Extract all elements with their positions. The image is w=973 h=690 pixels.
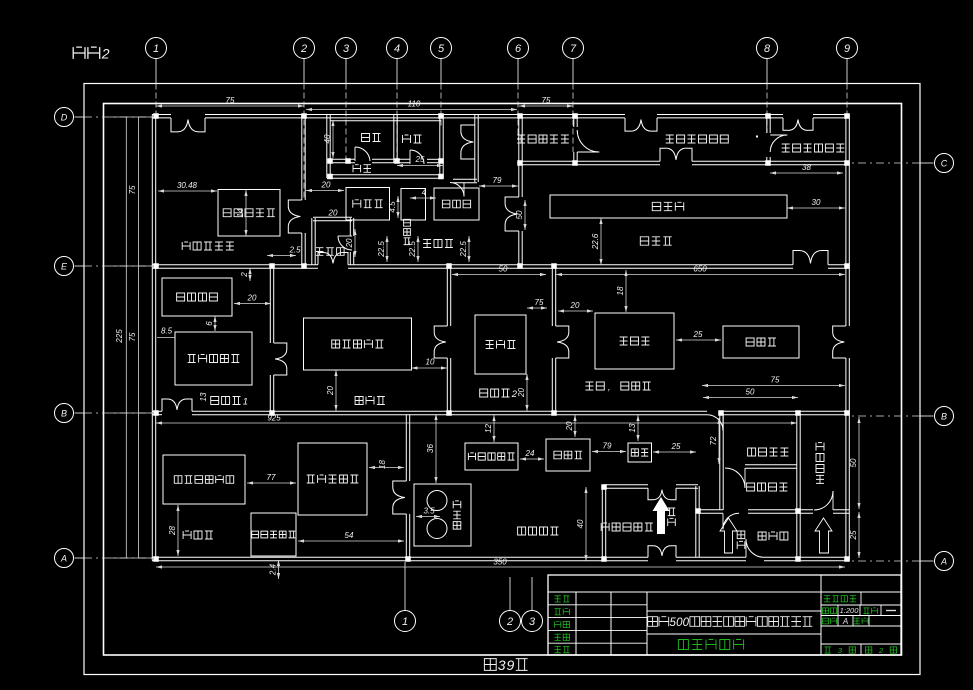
label 贴标机 vertical (404, 219, 411, 226)
svg-text:2: 2 (300, 43, 307, 55)
svg-text:6: 6 (205, 321, 214, 326)
svg-text:1: 1 (402, 616, 408, 628)
grid bubble C right (935, 154, 954, 173)
label 大米暂存区 (601, 523, 609, 531)
top exterior wall row D (152, 114, 171, 116)
vestibule wall x476 (474, 115, 476, 183)
svg-text:,: , (608, 382, 611, 393)
svg-text:18: 18 (378, 460, 387, 469)
svg-text:22.5: 22.5 (377, 241, 386, 258)
svg-text:10: 10 (426, 358, 435, 367)
grid bubble B right (935, 407, 954, 426)
grid bubble 2 top (294, 38, 315, 59)
svg-text:0: 0 (683, 617, 690, 629)
dim 12 vertical (493, 415, 495, 442)
dim 50 (452, 274, 546, 276)
dim 650 (556, 274, 845, 276)
svg-text:E: E (61, 262, 68, 272)
grid bubble 6 top (508, 38, 529, 59)
dim 72 vertical (718, 418, 720, 464)
title block left table (575, 592, 577, 655)
dim 25 vertical (858, 512, 860, 558)
svg-text:650: 650 (693, 265, 707, 274)
door shoe corridor (723, 513, 739, 529)
svg-text:3: 3 (498, 657, 506, 673)
svg-text:12: 12 (484, 424, 493, 433)
grid bubble B left (55, 404, 74, 423)
door row B sterile1 (162, 399, 177, 411)
dim 20 vertical (574, 415, 576, 437)
grid bubble 1 top (146, 38, 167, 59)
svg-text:B: B (941, 412, 947, 422)
dim 20 vertical (335, 370, 337, 411)
dim 40 vertical (332, 120, 334, 158)
svg-text:3.5: 3.5 (423, 507, 435, 516)
door wall sterile1 (274, 343, 287, 359)
machine 检测器 (434, 188, 479, 220)
door inspection (505, 197, 519, 214)
machine 贴标机 box (401, 189, 426, 221)
dim 75 (527, 307, 547, 309)
machine 加压蒸汽灭菌 (163, 455, 245, 504)
label 女厕 (403, 135, 411, 143)
door top wall mid (625, 118, 641, 131)
svg-text:B: B (61, 409, 67, 419)
svg-text:25: 25 (693, 330, 703, 339)
row C interior wall (519, 160, 660, 162)
svg-text:20: 20 (565, 421, 574, 431)
label 外包装材料库 (666, 135, 674, 143)
door row E packing area (793, 250, 811, 264)
grid bubble 5 top (431, 38, 452, 59)
wall between cook and sterile1 (269, 268, 271, 343)
label 无菌区1 (211, 397, 219, 405)
svg-text:77: 77 (267, 473, 276, 482)
label 冷却, 烘干区 (585, 382, 593, 390)
wall between aseptic2 and cooling (551, 268, 553, 326)
dim 25 (676, 339, 721, 341)
svg-text:13: 13 (628, 423, 637, 432)
dim 2.4 vertical (278, 560, 280, 579)
grid bubble 3 top (336, 38, 357, 59)
dim 30.48 (158, 190, 217, 192)
row B interior wall (152, 410, 162, 412)
grid bubble 8 top (757, 38, 778, 59)
label 成品储藏间 (182, 242, 190, 250)
grid bubble D left (55, 108, 74, 127)
outer border frame (84, 84, 920, 675)
svg-text:20: 20 (326, 386, 335, 396)
dim 4 (410, 197, 436, 199)
bottom exterior wall row A (152, 556, 648, 558)
svg-text:9: 9 (506, 657, 514, 673)
grid bubble A right (935, 552, 954, 571)
svg-text:50: 50 (515, 210, 524, 219)
wall between washroom and men changing (745, 464, 797, 466)
door bottom wall shoe (746, 539, 764, 557)
svg-text:72: 72 (709, 436, 718, 445)
small dot (756, 136, 758, 138)
title row 制图 (555, 609, 561, 615)
label 预处理区 (518, 527, 526, 535)
inner border frame (104, 104, 902, 656)
label 人流 (737, 531, 745, 539)
grid bubble 2 bottom (500, 611, 521, 632)
corridor wall above shoe area (698, 509, 723, 511)
dim 75 (702, 385, 845, 387)
svg-text:2: 2 (101, 46, 110, 62)
dim 20 (234, 303, 271, 305)
label 检测区 (423, 240, 431, 248)
svg-text:22.5: 22.5 (408, 241, 417, 258)
svg-text:20: 20 (570, 301, 580, 310)
soaking tank 浸泡槽 (414, 484, 471, 546)
door men toilet leaf (354, 147, 356, 161)
svg-text:22.6: 22.6 (591, 233, 600, 250)
dim 22.5 vertical (417, 236, 419, 262)
svg-text:79: 79 (493, 176, 502, 185)
dim 75 (519, 105, 573, 107)
svg-text:28: 28 (168, 526, 177, 536)
door row C packing store (660, 148, 676, 161)
svg-text:20: 20 (345, 238, 354, 248)
dim 40 vertical (585, 487, 587, 561)
wall grid6 vertical upper (518, 115, 520, 162)
svg-text:38: 38 (802, 163, 811, 172)
arrow 人流 outline 2 (815, 518, 832, 553)
dim 2.5 (267, 255, 296, 257)
dim 20 (558, 310, 593, 312)
svg-text:20: 20 (517, 388, 526, 398)
dim 18 (369, 467, 404, 469)
dim 54 (298, 540, 404, 542)
dim 25 (397, 165, 443, 167)
svg-text:54: 54 (345, 531, 354, 540)
svg-text:50: 50 (499, 265, 508, 274)
dim 925 (156, 422, 797, 424)
svg-text:22.5: 22.5 (459, 241, 468, 258)
dim 3.5 (416, 516, 440, 518)
svg-text:36: 36 (426, 444, 435, 453)
label 灭菌区 (183, 531, 191, 539)
rice store right wall (695, 486, 697, 558)
svg-text:2: 2 (240, 272, 249, 278)
rice store top wall (604, 484, 648, 486)
dim 2 vertical (249, 268, 251, 281)
svg-text:A: A (60, 554, 67, 564)
machine 米仓 (628, 443, 652, 462)
svg-text:110: 110 (408, 100, 421, 109)
door control room leaf (338, 235, 352, 237)
label 男厕 (362, 134, 370, 142)
dim 20 (306, 190, 344, 192)
svg-text:20: 20 (321, 181, 331, 190)
door rice store top (648, 488, 662, 500)
title row 设计 (555, 596, 561, 602)
door row B washroom (707, 415, 723, 431)
svg-text:1: 1 (243, 396, 248, 407)
door right wall cooling (833, 326, 846, 342)
svg-text:24: 24 (525, 449, 535, 458)
dim 30 (787, 207, 845, 209)
dim 38 (770, 172, 843, 174)
title block top strip line (548, 591, 901, 593)
svg-text:C: C (941, 159, 948, 169)
label 隔间 (353, 165, 361, 173)
dim 18 vertical (625, 270, 627, 312)
svg-text:9: 9 (844, 43, 850, 55)
svg-text:A: A (940, 557, 947, 567)
label 炊饭区 (355, 397, 363, 405)
svg-text:30.48: 30.48 (177, 181, 198, 190)
structural columns (153, 113, 159, 119)
machine 冷却架 (595, 313, 674, 369)
grid bubble A left (55, 549, 74, 568)
dim 77 (247, 482, 296, 484)
dim 50 vertical (858, 417, 860, 509)
dim 13 vertical (637, 415, 639, 441)
svg-text:75: 75 (226, 96, 235, 105)
grid bubble 7 top (563, 38, 584, 59)
svg-text:8: 8 (764, 43, 771, 55)
svg-text:50: 50 (746, 388, 755, 397)
machine 连续炊饭机 (304, 318, 412, 370)
label 菜包存放间 (517, 135, 525, 143)
svg-text:30: 30 (812, 198, 821, 207)
svg-text:25: 25 (671, 442, 681, 451)
page label 第39页 (484, 659, 496, 671)
machine 定量洗米机 (175, 332, 252, 385)
dim 20 vertical (526, 374, 528, 411)
title drawing name 车间布置图 (678, 640, 688, 650)
svg-text:3: 3 (343, 43, 350, 55)
svg-text:5: 5 (438, 43, 445, 55)
machine 喷码机 (346, 188, 390, 221)
label 男更衣间 (747, 483, 755, 491)
door wall2 storage (288, 200, 302, 217)
wall between cook and aseptic2 (446, 268, 448, 326)
title block outline (548, 575, 901, 655)
svg-text:75: 75 (542, 96, 551, 105)
dim 50 vertical (524, 200, 526, 230)
grid bubble 4 top (387, 38, 408, 59)
changing room right wall (796, 415, 798, 558)
wall between sterilize area and pretreat (405, 415, 407, 482)
rice store left wall (601, 487, 603, 558)
door grid8 changing (770, 135, 787, 152)
dim 24 (520, 458, 544, 460)
door pretreat wall (393, 481, 407, 498)
svg-text:75: 75 (771, 376, 780, 385)
svg-text:2: 2 (506, 616, 513, 628)
svg-text:18: 18 (616, 286, 625, 295)
dim 22.6 vertical (600, 218, 602, 265)
dim 4.5 vertical (397, 196, 399, 218)
machine 提升机 (546, 439, 590, 471)
toilet block walls (326, 115, 328, 179)
label 包装区 (640, 237, 648, 245)
title right section (820, 575, 822, 655)
grid bubble 1 bottom (395, 611, 416, 632)
svg-text:40: 40 (576, 519, 585, 528)
svg-text:225: 225 (115, 329, 124, 344)
door vestibule stub (450, 183, 464, 197)
svg-text:75: 75 (128, 332, 137, 341)
svg-text:40: 40 (323, 134, 332, 143)
dim 350 (156, 566, 845, 568)
svg-text:4: 4 (422, 188, 427, 197)
svg-text:14: 14 (236, 208, 245, 217)
svg-text:8.5: 8.5 (161, 327, 173, 336)
machine 封口机 (475, 315, 526, 374)
machine 喷淋洗米机 (465, 443, 518, 470)
dim 25 (653, 451, 696, 453)
svg-text:1:200: 1:200 (840, 606, 860, 615)
svg-text:4.5: 4.5 (388, 201, 397, 213)
dim 22.5 vertical (386, 236, 388, 262)
wall grid7 stub (573, 115, 575, 128)
svg-text:75: 75 (128, 185, 137, 194)
dim 20 vertical (354, 229, 356, 257)
dim 14 vertical (245, 190, 247, 236)
svg-text:4: 4 (394, 43, 400, 55)
door grid7 (577, 130, 599, 152)
svg-text:D: D (61, 113, 68, 123)
svg-text:50: 50 (849, 458, 858, 467)
control room walls (313, 216, 352, 218)
dim 22.5 vertical (468, 236, 470, 262)
label 物流 (668, 508, 676, 516)
svg-text:75: 75 (535, 298, 544, 307)
svg-text:20: 20 (247, 294, 257, 303)
title row 审核 (555, 634, 561, 640)
label 控制室 (316, 248, 324, 256)
dim 36 vertical (435, 414, 437, 483)
door women toilet leaf (409, 150, 411, 164)
packing bench 包装台 (550, 195, 787, 218)
door top wall right (783, 118, 798, 130)
wash-room left wall (719, 415, 721, 511)
label 无菌区2 (480, 389, 488, 397)
door women changing (814, 491, 833, 510)
svg-text:6: 6 (515, 43, 522, 55)
door men changing (725, 468, 745, 488)
svg-text:1: 1 (153, 43, 159, 55)
title center project name (647, 610, 821, 612)
svg-text:13: 13 (199, 392, 208, 401)
door row E control (318, 252, 333, 264)
label 换鞋处 (758, 532, 766, 540)
dim 6 vertical (214, 316, 216, 331)
door rice store bottom (648, 546, 662, 558)
dim 10 (412, 367, 448, 369)
dim 110 (306, 109, 517, 111)
svg-text:2.5: 2.5 (288, 246, 301, 255)
machine 烘干机 (723, 326, 799, 358)
svg-text:25: 25 (849, 530, 858, 540)
arrow 物流 filled (653, 497, 670, 534)
row E interior wall (152, 264, 318, 266)
grid bubble 3 bottom (522, 611, 543, 632)
machine 水处理器 (162, 278, 232, 316)
door aseptic2 left (434, 326, 447, 342)
label 女更衣间 (816, 443, 824, 451)
dim 50 (703, 397, 798, 399)
machine 自动装盒机 (251, 513, 296, 556)
svg-text:925: 925 (267, 414, 281, 423)
door top wall left (171, 118, 188, 132)
dim 75 (156, 105, 304, 107)
left exterior wall grid1 (151, 115, 153, 561)
svg-text:2: 2 (878, 646, 884, 655)
svg-text:350: 350 (493, 558, 507, 567)
grid bubble E left (55, 257, 74, 276)
arrow 人流 outline 1 (720, 518, 737, 553)
machine 自动包装机 (218, 190, 280, 237)
label 外包装更衣间 (782, 144, 790, 152)
door vestibule (461, 125, 475, 142)
svg-text:3: 3 (529, 616, 536, 628)
label 洗手消毒 (748, 448, 756, 456)
grid bubble 9 top (837, 38, 858, 59)
svg-text:A: A (842, 617, 848, 626)
machine 定量装米机 (298, 443, 367, 515)
svg-text:2.4: 2.4 (269, 563, 278, 576)
svg-text:25: 25 (415, 155, 425, 164)
svg-text:79: 79 (603, 442, 612, 451)
dim 28 vertical (177, 505, 179, 556)
right exterior wall grid9 (845, 115, 847, 327)
door cooling left (556, 326, 569, 342)
wall grid2 vertical (301, 115, 303, 201)
dim 79 (479, 185, 518, 187)
title row 校核 (555, 621, 561, 627)
wall grid8 stub (766, 115, 768, 134)
title row 审定 (555, 647, 561, 653)
svg-text:20: 20 (328, 209, 338, 218)
dim 79 (592, 451, 626, 453)
left dim lines (125, 117, 127, 558)
figure title 附图2 (73, 47, 85, 59)
svg-text:7: 7 (570, 43, 577, 55)
